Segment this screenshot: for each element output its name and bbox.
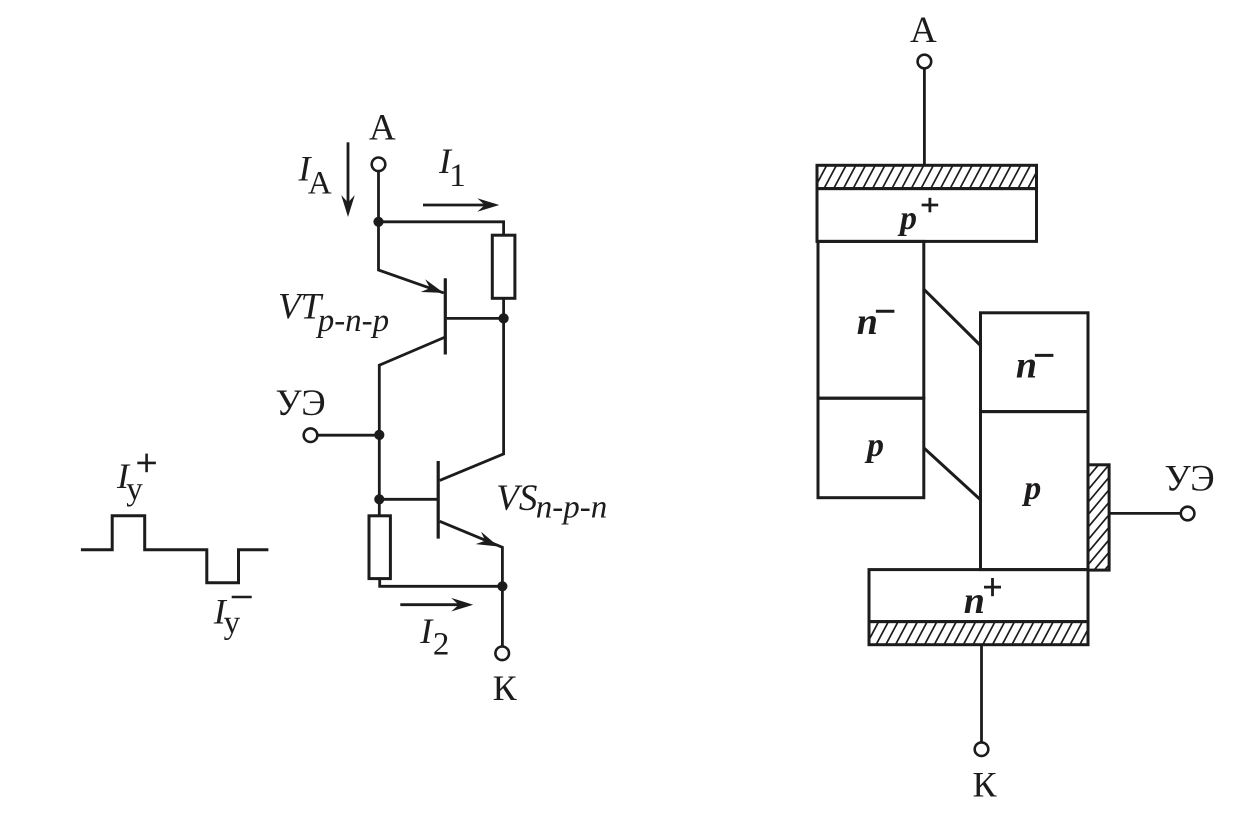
junction node (cathode) <box>497 581 507 591</box>
current arrow I_1 <box>423 198 499 212</box>
wire gate lead (structure) <box>1109 512 1181 515</box>
junction node (VS base) <box>374 494 384 504</box>
terminal K open circle (structure) <box>975 742 989 756</box>
svg-text:n: n <box>964 580 985 622</box>
transistor VS base bar <box>437 461 440 539</box>
svg-text:УЭ: УЭ <box>1165 459 1215 500</box>
junction node (VT base / R1) <box>499 313 509 323</box>
wire anode lead <box>377 171 380 222</box>
junction node (anode) <box>373 217 383 227</box>
svg-text:у: у <box>126 472 143 508</box>
svg-text:К: К <box>973 764 998 804</box>
svg-text:p: p <box>1021 470 1041 507</box>
svg-text:p: p <box>864 427 884 464</box>
label VT p-n-p <box>278 286 389 339</box>
transistor VT base bar <box>444 278 447 354</box>
junction boundary diagonal (upper) <box>924 289 981 345</box>
wire anode lead (structure) <box>923 68 926 165</box>
label p (left) <box>864 427 884 464</box>
terminal UE open circle (structure) <box>1181 507 1195 521</box>
region n- box (right column) <box>981 313 1089 412</box>
label n- (left) <box>857 301 895 343</box>
label p (right) <box>1021 470 1041 507</box>
label I_1 <box>438 141 466 194</box>
transistor VS emitter wire with arrow <box>440 521 503 586</box>
svg-text:n: n <box>1016 344 1037 386</box>
terminal A open circle (structure) <box>918 55 932 69</box>
terminal label UE (gate) <box>276 383 326 424</box>
svg-text:УЭ: УЭ <box>276 383 326 424</box>
label I_y- (negative gate pulse) <box>213 591 252 641</box>
region p box (right column) <box>981 412 1089 570</box>
transistor VT emitter wire with arrow <box>379 222 444 293</box>
terminal UE open circle <box>304 428 318 442</box>
terminal A open circle <box>372 158 386 172</box>
terminal label A (structure anode) <box>910 10 937 51</box>
label n- (right) <box>1016 344 1054 386</box>
wire to resistor R2 <box>378 499 381 516</box>
wire R2 to cathode node <box>380 579 503 587</box>
svg-text:n: n <box>857 301 878 343</box>
transistor VT collector wire <box>379 337 445 435</box>
wire R1 to node <box>502 298 505 318</box>
transistor VT base wire <box>447 317 504 320</box>
svg-text:К: К <box>493 668 518 708</box>
svg-text:1: 1 <box>449 158 466 194</box>
terminal label A (anode) <box>369 108 396 149</box>
svg-text:n-p-n: n-p-n <box>536 490 607 526</box>
transistor VS base wire <box>379 498 438 501</box>
cathode metal contact (hatched) <box>857 622 1092 645</box>
svg-text:VS: VS <box>496 478 537 519</box>
terminal label K (structure cathode) <box>973 764 998 804</box>
terminal label K (cathode) <box>493 668 518 708</box>
label n+ <box>964 578 1001 622</box>
label I_A <box>298 149 332 202</box>
svg-text:у: у <box>224 605 241 641</box>
terminal label UE (structure gate) <box>1165 459 1215 500</box>
svg-text:2: 2 <box>433 626 450 662</box>
wire gate lead <box>317 434 379 437</box>
region n+ box <box>869 570 1088 622</box>
wire gate node down <box>378 435 381 499</box>
current arrow I_A <box>341 142 355 217</box>
svg-text:A: A <box>308 166 332 202</box>
label I_y+ (positive gate pulse) <box>116 454 156 508</box>
svg-text:p: p <box>897 200 917 237</box>
junction node (gate) <box>374 430 384 440</box>
svg-text:p-n-p: p-n-p <box>316 303 389 339</box>
transistor VS collector wire <box>440 323 504 480</box>
label VS n-p-n <box>496 478 607 526</box>
wire cathode lead (structure) <box>980 645 983 742</box>
resistor R2 (shunt) <box>369 516 390 579</box>
control current pulse waveform <box>81 516 269 583</box>
svg-text:A: A <box>910 10 937 51</box>
region p box (left column) <box>818 398 924 498</box>
region n- box (left column) <box>818 241 924 398</box>
current arrow I_2 <box>400 598 473 612</box>
label I_2 <box>419 611 449 663</box>
junction boundary diagonal (lower) <box>924 448 980 500</box>
region p+ box <box>817 189 1037 242</box>
wire cathode lead <box>501 586 504 647</box>
resistor R1 (load) <box>492 235 515 298</box>
terminal K open circle <box>495 647 509 661</box>
label p+ <box>897 198 938 237</box>
wire to resistor R1 <box>379 222 504 235</box>
svg-text:A: A <box>369 108 396 149</box>
anode metal contact (hatched) <box>805 165 1041 188</box>
gate metal contact (hatched) <box>1000 465 1193 570</box>
